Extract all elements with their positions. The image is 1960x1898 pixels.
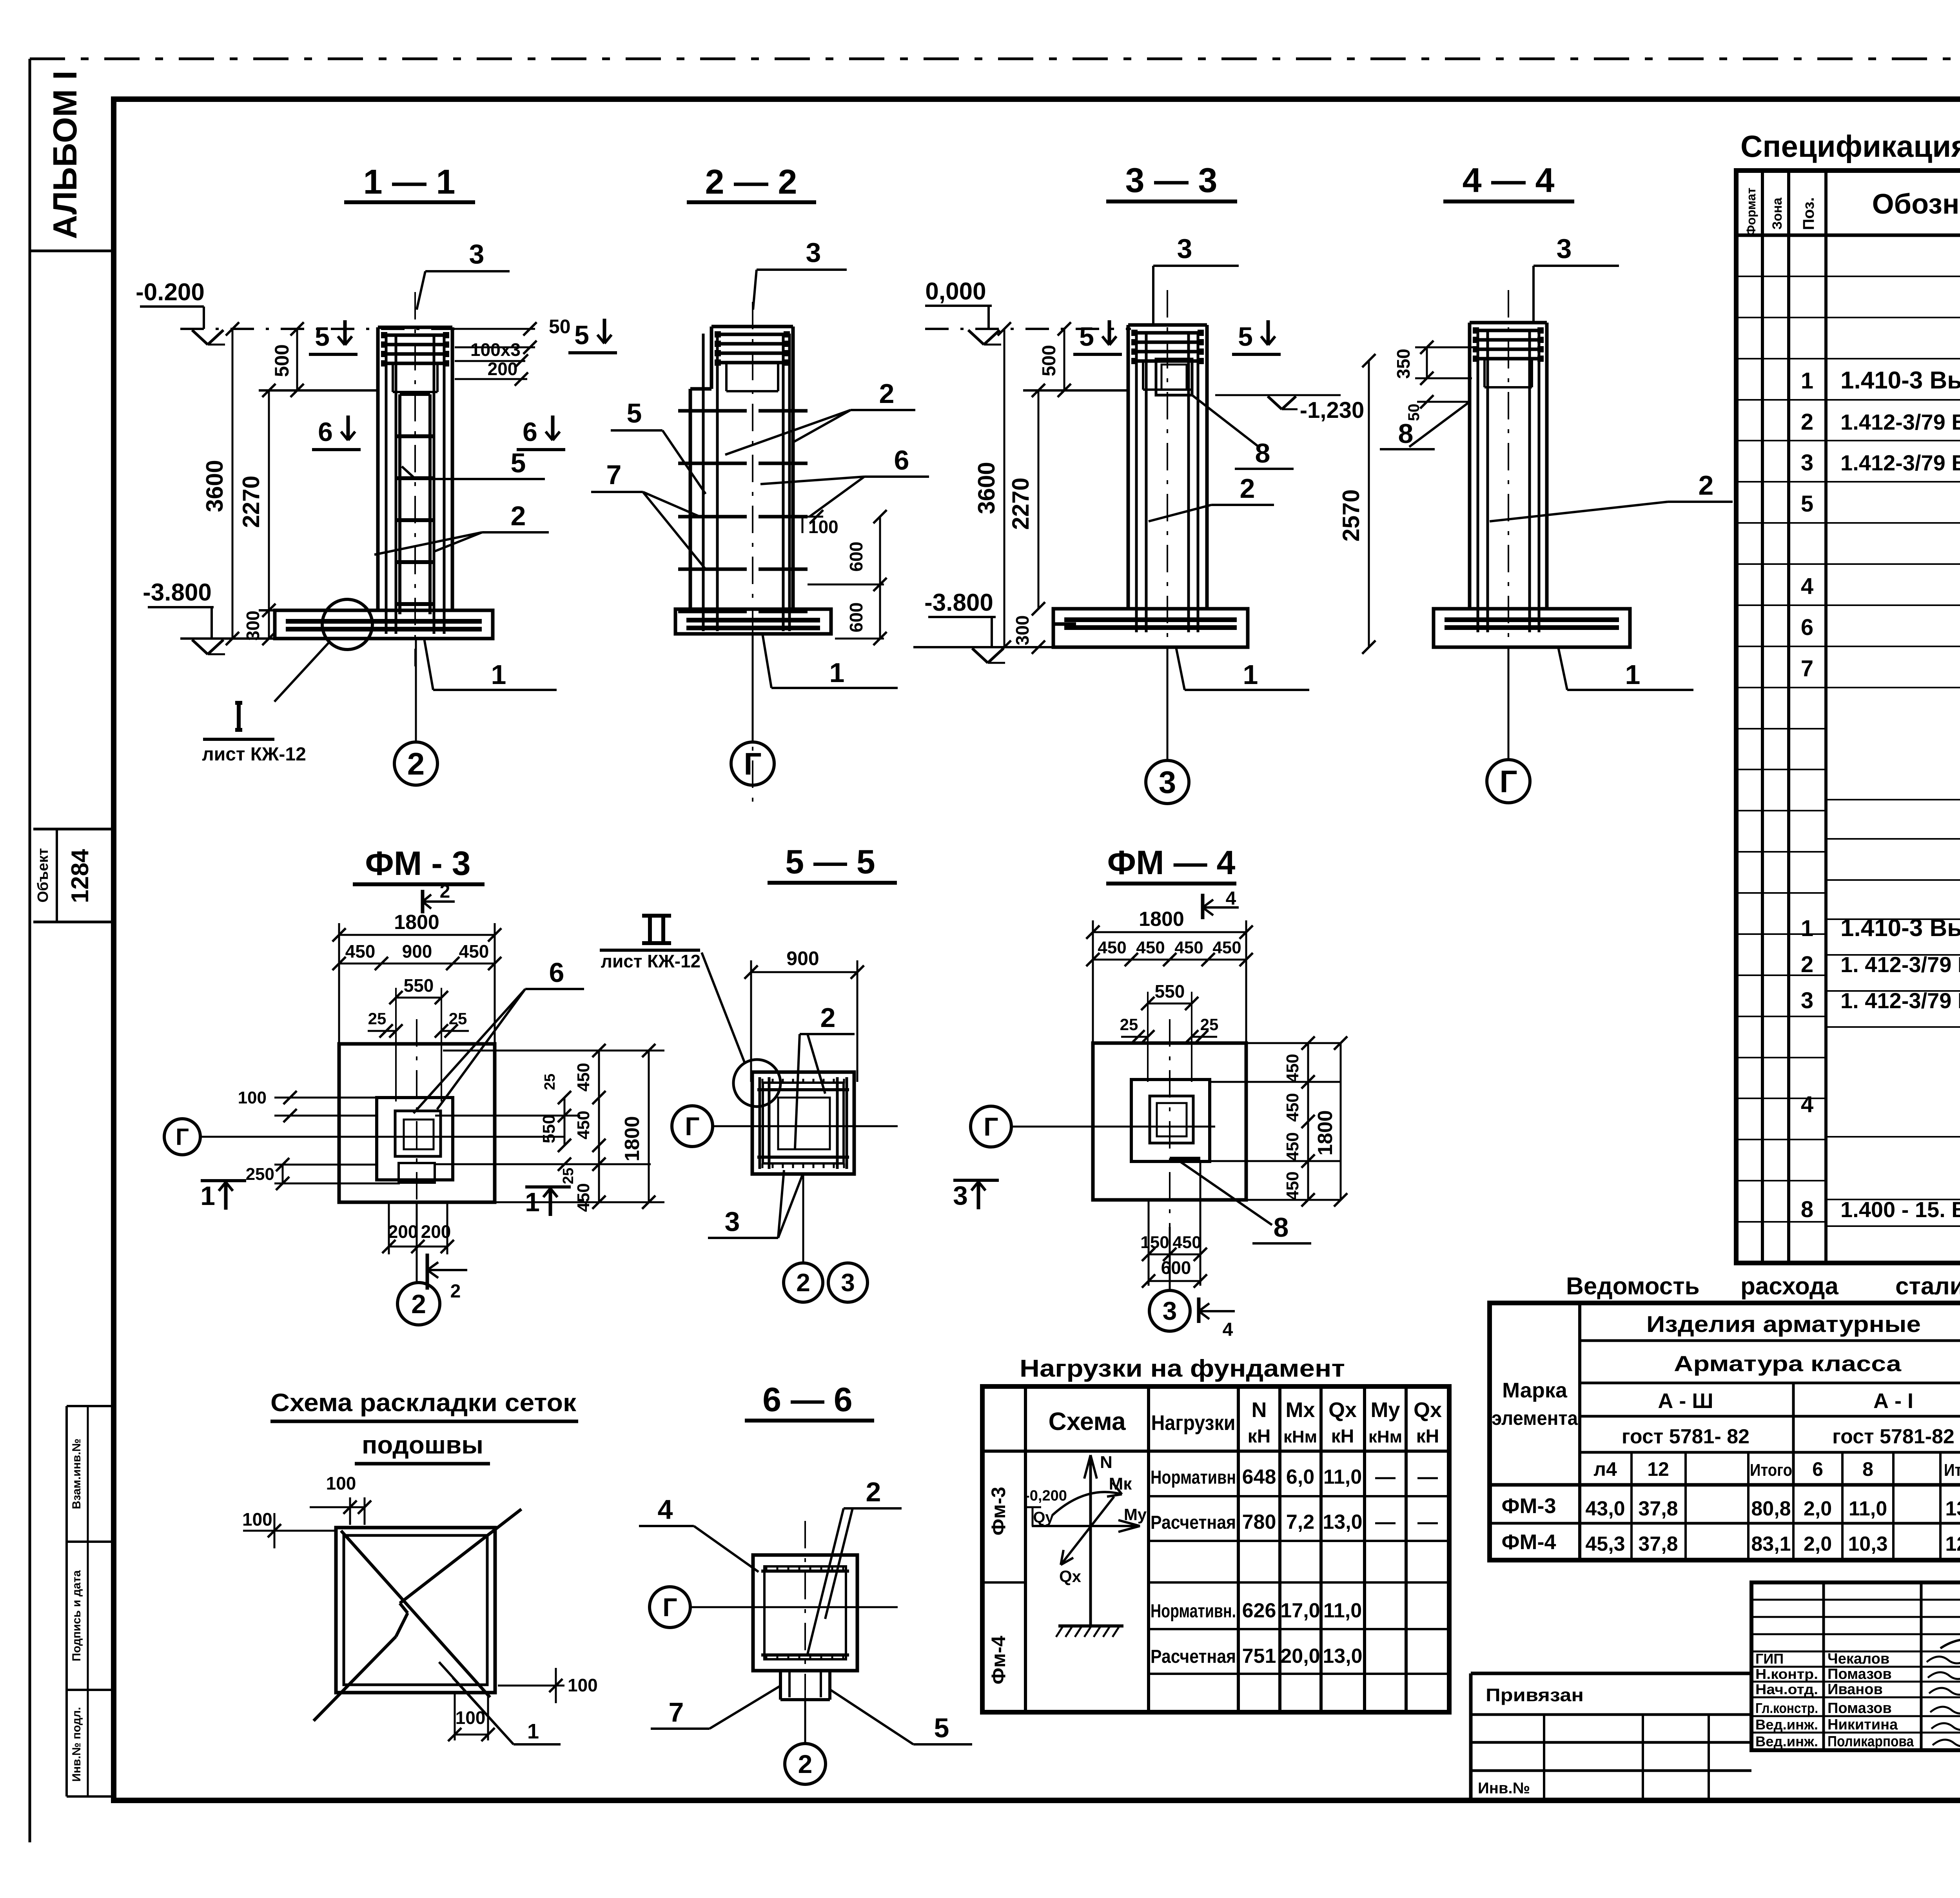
svg-text:Поликарпова: Поликарпова: [1828, 1733, 1914, 1750]
section 4-4 center line: [1508, 290, 1509, 666]
svg-text:11,0: 11,0: [1323, 1599, 1362, 1622]
svg-text:2: 2: [1801, 952, 1813, 977]
svg-text:Помазов: Помазов: [1828, 1666, 1892, 1682]
svg-text:N: N: [1252, 1398, 1267, 1422]
svg-text:300: 300: [1012, 615, 1033, 646]
svg-text:3: 3: [953, 1181, 968, 1210]
svg-text:250: 250: [246, 1165, 274, 1184]
signatures squiggles: [1927, 1655, 1960, 1664]
plan FM-4 embedded mark: [1170, 1157, 1200, 1162]
svg-text:100: 100: [326, 1473, 356, 1493]
svg-text:450: 450: [1283, 1093, 1302, 1121]
svg-text:626: 626: [1242, 1599, 1276, 1622]
section 5-5 axis circle G: [672, 1106, 713, 1147]
svg-text:3: 3: [806, 237, 821, 268]
svg-text:Нормативн.: Нормативн.: [1151, 1601, 1236, 1622]
svg-text:6: 6: [1812, 1458, 1823, 1480]
svg-text:Изделия арматурные: Изделия арматурные: [1646, 1312, 1921, 1337]
svg-text:450: 450: [459, 941, 489, 962]
svg-text:450: 450: [1172, 1233, 1201, 1252]
svg-text:Гл.констр.: Гл.констр.: [1755, 1700, 1818, 1716]
svg-text:кН: кН: [1248, 1426, 1271, 1447]
svg-text:Привязан: Привязан: [1486, 1685, 1584, 1705]
svg-text:2: 2: [407, 746, 425, 781]
svg-text:1: 1: [525, 1187, 540, 1217]
outer sheet border: [29, 59, 31, 1842]
svg-text:АЛЬБОМ I: АЛЬБОМ I: [47, 71, 84, 239]
svg-text:500: 500: [1039, 345, 1060, 376]
svg-text:751: 751: [1242, 1645, 1276, 1668]
svg-text:1284: 1284: [67, 849, 94, 903]
svg-text:кНм: кНм: [1283, 1427, 1317, 1446]
section 5-5 rebar bars: [759, 1077, 761, 1169]
section 6-6 square outline: [753, 1555, 857, 1671]
svg-text:Объект: Объект: [35, 848, 51, 903]
svg-text:450: 450: [574, 1110, 593, 1139]
svg-text:Итого: Итого: [1944, 1461, 1960, 1480]
mesh layout dim 100 right: [498, 1685, 564, 1687]
svg-text:450: 450: [1098, 938, 1126, 957]
plan FM-3 footing square: [339, 1044, 495, 1202]
svg-text:1 — 1: 1 — 1: [363, 162, 456, 201]
svg-text:ГИП: ГИП: [1755, 1651, 1784, 1667]
svg-text:5: 5: [1238, 322, 1253, 352]
section 6-6 bottom boss: [779, 1671, 782, 1700]
svg-text:6: 6: [318, 417, 333, 447]
plan FM-4 footing square: [1093, 1043, 1246, 1200]
svg-text:-3.800: -3.800: [143, 579, 212, 606]
svg-text:2570: 2570: [1338, 489, 1364, 541]
plan FM-4 cut mark 4 bottom: [1197, 1297, 1201, 1323]
svg-text:7: 7: [669, 1697, 684, 1727]
svg-text:Г: Г: [662, 1593, 677, 1622]
section 3-3 bottom axis circle 3: [1167, 647, 1169, 760]
svg-text:2: 2: [411, 1289, 426, 1319]
plan FM-4 bottom dims 150/450/600: [1148, 1201, 1150, 1286]
svg-text:600: 600: [1161, 1257, 1191, 1278]
signature grid: [1751, 1582, 1960, 1750]
svg-text:Нагрузки: Нагрузки: [1151, 1411, 1236, 1435]
svg-text:-0,200: -0,200: [1025, 1488, 1067, 1504]
svg-text:N: N: [1100, 1453, 1112, 1472]
section 3-3 center line: [1167, 290, 1168, 666]
spec table header bottom: [1736, 234, 1960, 237]
section 5-5 tick dots top/bottom: [762, 1079, 764, 1083]
svg-text:2: 2: [1240, 473, 1255, 504]
svg-text:Расчетная: Расчетная: [1151, 1512, 1236, 1533]
svg-text:12: 12: [1647, 1458, 1669, 1480]
mesh layout dim 100 top: [349, 1497, 351, 1525]
svg-text:6 — 6: 6 — 6: [762, 1381, 852, 1419]
svg-text:37,8: 37,8: [1638, 1497, 1678, 1520]
svg-text:3: 3: [1159, 765, 1176, 800]
svg-text:25: 25: [542, 1074, 558, 1090]
plan FM-4 cut mark 3 left: [953, 1179, 999, 1182]
plan FM-3 centerline vertical: [416, 1019, 417, 1239]
svg-text:600: 600: [846, 602, 866, 633]
svg-text:ФМ — 4: ФМ — 4: [1107, 844, 1236, 882]
svg-text:2270: 2270: [238, 475, 264, 528]
plan FM-4 right dim chains: [1307, 1043, 1309, 1200]
svg-text:0,000: 0,000: [925, 278, 986, 305]
svg-text:Обозначение: Обозначение: [1872, 189, 1960, 220]
svg-text:5: 5: [934, 1713, 949, 1743]
svg-text:Взам.инв.№: Взам.инв.№: [70, 1439, 83, 1509]
svg-text:1: 1: [1625, 659, 1641, 690]
svg-text:900: 900: [786, 947, 819, 969]
svg-text:ФМ - 3: ФМ - 3: [365, 845, 470, 882]
svg-text:100: 100: [808, 517, 838, 537]
svg-text:4: 4: [1226, 888, 1236, 909]
svg-text:450: 450: [574, 1183, 593, 1212]
svg-text:450: 450: [1212, 938, 1241, 957]
svg-text:гост 5781- 82: гост 5781- 82: [1622, 1425, 1749, 1448]
section 5-5 top dim 900: [751, 971, 857, 973]
section 1-1 dims left: [180, 637, 279, 640]
svg-text:50: 50: [549, 316, 571, 338]
plan FM-3 top dims: [339, 934, 495, 936]
svg-text:3: 3: [1557, 233, 1572, 264]
plan FM-3 cut mark 2 bottom: [426, 1254, 429, 1290]
svg-text:5: 5: [1801, 491, 1813, 517]
plan FM-3 inner squares: [395, 1111, 441, 1156]
svg-text:2,0: 2,0: [1804, 1533, 1832, 1555]
svg-text:20,0: 20,0: [1280, 1645, 1320, 1668]
svg-text:гост 5781-82: гост 5781-82: [1832, 1425, 1955, 1448]
svg-text:2: 2: [866, 1477, 881, 1507]
svg-text:5: 5: [1079, 322, 1094, 352]
svg-text:4: 4: [1223, 1319, 1233, 1340]
svg-text:1: 1: [829, 657, 845, 688]
svg-text:А - I: А - I: [1873, 1389, 1913, 1413]
svg-text:Qy: Qy: [1033, 1509, 1054, 1526]
svg-text:600: 600: [846, 542, 866, 572]
svg-text:13,0: 13,0: [1945, 1497, 1960, 1520]
svg-text:100: 100: [238, 1088, 267, 1107]
svg-text:2: 2: [1699, 470, 1714, 501]
svg-text:—: —: [1375, 1511, 1396, 1533]
plan FM-4 anchor square: [1131, 1080, 1210, 1161]
plan FM-3 axis circle G: [164, 1119, 200, 1155]
svg-text:100: 100: [242, 1509, 272, 1530]
svg-text:5 — 5: 5 — 5: [785, 843, 875, 881]
plan FM-3 column square: [377, 1098, 453, 1180]
section 1-1 footing: [275, 610, 493, 639]
svg-text:1: 1: [200, 1181, 215, 1211]
section 4-4 vertical rebars: [1477, 330, 1479, 632]
svg-text:25: 25: [560, 1168, 577, 1184]
section 4-4 head rebar: [1474, 329, 1542, 332]
section 3-3 vertical rebars: [1135, 332, 1138, 632]
svg-text:450: 450: [1283, 1054, 1302, 1082]
section 6-6 bottom axis circle 2: [804, 1700, 806, 1743]
plan FM-3 bottom axis circle 2: [416, 1202, 418, 1283]
svg-text:13,0: 13,0: [1323, 1511, 1362, 1533]
steel table frame: [1490, 1303, 1960, 1560]
svg-text:Схема раскладки сеток: Схема раскладки сеток: [270, 1388, 577, 1417]
svg-text:300: 300: [243, 611, 263, 641]
svg-text:6,0: 6,0: [1286, 1466, 1314, 1488]
svg-text:450: 450: [1174, 938, 1203, 957]
svg-text:450: 450: [574, 1063, 593, 1091]
svg-text:450: 450: [1283, 1171, 1302, 1200]
svg-text:6: 6: [894, 445, 909, 475]
section 3-3 label 8 leader: [1192, 395, 1258, 446]
section 3-3 dims left: [913, 646, 1058, 648]
svg-text:—: —: [1417, 1466, 1438, 1488]
svg-text:10,3: 10,3: [1848, 1533, 1887, 1555]
loads schema sketch: [1089, 1455, 1092, 1626]
svg-text:900: 900: [402, 941, 432, 962]
svg-text:2: 2: [796, 1268, 810, 1297]
svg-text:1800: 1800: [1139, 908, 1184, 931]
svg-text:550: 550: [539, 1114, 559, 1143]
section 3-3 level -1.230: [1215, 394, 1341, 396]
svg-text:Н.контр.: Н.контр.: [1755, 1666, 1818, 1682]
svg-text:СпецификацияфундаментовФм3иФм4: СпецификацияфундаментовФм3иФм4: [1740, 129, 1960, 163]
plan FM-3 right dim chains: [564, 1098, 566, 1145]
plan FM-3 bottom step: [399, 1163, 435, 1183]
section 2-2 head rebar: [716, 333, 788, 336]
svg-text:Помазов: Помазов: [1828, 1700, 1892, 1717]
svg-text:Зона: Зона: [1770, 197, 1785, 230]
svg-text:2: 2: [879, 378, 895, 409]
svg-text:-0.200: -0.200: [136, 279, 205, 306]
svg-text:8: 8: [1862, 1458, 1873, 1480]
section 3-3 label 1 leader: [1176, 647, 1185, 690]
svg-text:My: My: [1370, 1398, 1400, 1422]
section 1-1 bottom axis circle 2: [415, 639, 417, 742]
section 4-4 column outline: [1468, 323, 1472, 609]
svg-text:Qx: Qx: [1328, 1398, 1357, 1422]
section 2-2 vertical rebars: [702, 334, 705, 631]
svg-text:А - Ш: А - Ш: [1658, 1389, 1713, 1413]
section 1-1 detail circle I: [322, 599, 372, 650]
mesh layout leaders to 1: [439, 1662, 514, 1744]
svg-text:5: 5: [315, 322, 330, 352]
svg-text:кН: кН: [1331, 1426, 1354, 1447]
svg-text:Формат: Формат: [1744, 188, 1758, 236]
svg-text:ФМ-4: ФМ-4: [1501, 1530, 1556, 1554]
svg-text:1.412-3/79 Вып. 3: 1.412-3/79 Вып. 3: [1840, 450, 1960, 475]
section 1-1 center line: [414, 292, 416, 666]
svg-text:450: 450: [1136, 938, 1165, 957]
section 3-3 column outline: [1127, 325, 1130, 609]
svg-text:2 — 2: 2 — 2: [705, 162, 797, 201]
svg-text:450: 450: [345, 941, 376, 962]
svg-text:4 — 4: 4 — 4: [1463, 161, 1555, 200]
svg-text:Mx: Mx: [1285, 1398, 1315, 1422]
mesh layout dim 100 bottom: [454, 1693, 456, 1740]
svg-text:Арматура класса: Арматура класса: [1674, 1351, 1902, 1376]
svg-text:3: 3: [841, 1268, 855, 1297]
svg-text:Г: Г: [176, 1124, 189, 1150]
svg-text:лист КЖ-12: лист КЖ-12: [202, 744, 306, 765]
svg-text:5: 5: [511, 448, 526, 478]
left margin: ALBOM I box: [30, 250, 114, 252]
svg-text:7: 7: [606, 459, 622, 490]
section 2-2 stirrups: [678, 409, 747, 413]
svg-text:кН: кН: [1416, 1426, 1439, 1447]
svg-text:3: 3: [1801, 988, 1813, 1013]
svg-text:6: 6: [1801, 615, 1813, 640]
mesh layout dim 100 left: [243, 1530, 337, 1532]
section 4-4 bottom axis circle G: [1508, 647, 1510, 758]
svg-text:1.400 - 15. В. 1: 1.400 - 15. В. 1: [1840, 1197, 1960, 1222]
svg-text:Подпись и дата: Подпись и дата: [70, 1570, 83, 1661]
svg-text:Г: Г: [1499, 764, 1517, 799]
svg-text:25: 25: [1200, 1015, 1219, 1034]
loads table column lines: [1024, 1386, 1027, 1712]
svg-text:Марка: Марка: [1502, 1379, 1568, 1402]
section 6-6 rebar lines: [761, 1570, 849, 1573]
svg-text:83,1: 83,1: [1751, 1533, 1791, 1555]
plan FM-4 centerline vertical: [1169, 1019, 1171, 1227]
svg-text:500: 500: [271, 344, 293, 377]
svg-text:17,0: 17,0: [1280, 1599, 1320, 1622]
svg-text:Qx: Qx: [1414, 1398, 1442, 1422]
svg-text:1: 1: [1801, 368, 1813, 394]
plan FM-4 top dims: [1093, 931, 1246, 933]
svg-text:1. 412-3/79 Вып.3: 1. 412-3/79 Вып.3: [1840, 952, 1960, 977]
section 3-3 footing: [1053, 609, 1248, 647]
svg-text:Поз.: Поз.: [1800, 197, 1817, 230]
svg-text:Расчетная: Расчетная: [1151, 1646, 1236, 1667]
svg-text:13,0: 13,0: [1323, 1645, 1362, 1668]
section 6-6 centerline: [804, 1521, 806, 1740]
section 5-5 square outline: [752, 1072, 854, 1174]
svg-text:11,0: 11,0: [1849, 1497, 1887, 1520]
svg-text:Г: Г: [744, 746, 761, 781]
svg-text:12,3: 12,3: [1945, 1533, 1960, 1555]
plan FM-3 left dims 100: [274, 1097, 397, 1099]
svg-text:80,8: 80,8: [1751, 1497, 1791, 1520]
svg-text:37,8: 37,8: [1638, 1533, 1678, 1555]
svg-text:—: —: [1417, 1511, 1438, 1533]
svg-text:л4: л4: [1593, 1458, 1617, 1480]
mesh layout second diagonal: [341, 1531, 490, 1697]
svg-text:200: 200: [421, 1221, 451, 1242]
svg-text:200: 200: [488, 359, 518, 379]
svg-text:1: 1: [1801, 916, 1813, 941]
svg-text:Г: Г: [984, 1112, 998, 1141]
section 1-1 label 1 leader: [424, 639, 433, 690]
section 5-5 detail circle II: [733, 1060, 780, 1107]
plan FM-3 cut mark 1 left up: [201, 1179, 246, 1182]
svg-text:6: 6: [549, 957, 564, 988]
svg-text:7: 7: [1801, 656, 1813, 681]
svg-text:Фм-4: Фм-4: [987, 1636, 1009, 1684]
loads table frame: [982, 1386, 1449, 1712]
plan FM-4 axis circle G: [971, 1106, 1011, 1147]
svg-text:Вед.инж.: Вед.инж.: [1755, 1733, 1818, 1749]
svg-text:лист КЖ-12: лист КЖ-12: [601, 951, 701, 971]
svg-text:43,0: 43,0: [1585, 1497, 1625, 1520]
svg-text:2: 2: [798, 1749, 813, 1778]
svg-text:-1,230: -1,230: [1300, 397, 1364, 423]
svg-text:Вед.инж.: Вед.инж.: [1755, 1717, 1818, 1733]
section 4-4 label 8 leader: [1409, 402, 1470, 447]
svg-text:11,0: 11,0: [1323, 1466, 1362, 1488]
svg-text:1: 1: [491, 659, 506, 690]
mesh layout diagonal with break: [314, 1637, 396, 1721]
svg-text:2: 2: [1801, 409, 1813, 435]
svg-text:25: 25: [368, 1009, 387, 1028]
svg-text:3600: 3600: [201, 460, 228, 512]
svg-text:3 — 3: 3 — 3: [1125, 161, 1218, 200]
section 1-1 column outline: [376, 327, 380, 610]
section 2-2 label 1 leader: [762, 634, 771, 688]
svg-text:1800: 1800: [1314, 1110, 1337, 1156]
svg-text:подошвы: подошвы: [362, 1431, 483, 1459]
svg-text:350: 350: [1393, 349, 1414, 379]
section 1-1 dims right 50/100x3/200: [455, 328, 535, 330]
section 5-5 bottom circles 2 3: [802, 1174, 804, 1263]
mesh layout square: [336, 1528, 495, 1693]
svg-text:100: 100: [456, 1707, 486, 1728]
section 2-2 center line: [752, 302, 753, 807]
svg-text:кНм: кНм: [1368, 1427, 1402, 1446]
svg-text:5: 5: [627, 398, 642, 428]
section 2-2 footing: [675, 609, 831, 634]
left margin: Object 1284 box: [33, 828, 114, 831]
plan FM-3 cut mark 2 top: [421, 890, 425, 913]
plan FM-4 label 8 leader: [1180, 1161, 1272, 1225]
svg-text:8: 8: [1274, 1212, 1289, 1243]
svg-text:450: 450: [1283, 1132, 1302, 1161]
section 3-3 head rebar: [1133, 331, 1202, 335]
svg-text:3: 3: [1163, 1296, 1177, 1325]
svg-text:1.410-3 Вып.1: 1.410-3 Вып.1: [1840, 915, 1960, 942]
svg-text:Qx: Qx: [1059, 1567, 1082, 1586]
svg-text:Г: Г: [685, 1112, 699, 1141]
plan FM-4 cut mark 4 top: [1201, 894, 1205, 919]
svg-text:200: 200: [388, 1221, 418, 1242]
svg-text:Нач.отд.: Нач.отд.: [1755, 1681, 1818, 1697]
svg-text:Схема: Схема: [1048, 1407, 1125, 1435]
loads table row lines: [1149, 1495, 1449, 1497]
svg-text:Му: Му: [1124, 1505, 1147, 1524]
plan FM-3 right ext lines: [443, 1050, 664, 1052]
svg-text:-3.800: -3.800: [924, 589, 993, 616]
plan FM-3 dim 250 bottom left: [274, 1164, 378, 1166]
section 1-1 rebar ladder C1: [398, 394, 401, 614]
svg-text:3600: 3600: [973, 462, 1000, 514]
steel table sub column lines: [1630, 1452, 1633, 1560]
section 6-6 axis circle G: [650, 1587, 690, 1628]
svg-text:3: 3: [1177, 233, 1192, 264]
steel table structure: [1578, 1303, 1581, 1560]
svg-text:150: 150: [1140, 1233, 1169, 1252]
svg-text:Инв.№: Инв.№: [1478, 1780, 1530, 1797]
svg-text:2270: 2270: [1007, 477, 1034, 530]
loads table header row line: [982, 1450, 1449, 1453]
svg-text:Никитина: Никитина: [1828, 1717, 1898, 1733]
svg-text:1800: 1800: [621, 1116, 644, 1161]
svg-text:780: 780: [1242, 1511, 1276, 1533]
svg-text:8: 8: [1255, 438, 1270, 468]
svg-text:1800: 1800: [394, 911, 439, 934]
svg-text:7,2: 7,2: [1286, 1511, 1314, 1533]
plan FM-4 bottom axis circle 3: [1169, 1286, 1171, 1290]
svg-text:1.410-3 Вып.1: 1.410-3 Вып.1: [1840, 367, 1960, 394]
svg-text:Нормативн: Нормативн: [1151, 1467, 1236, 1488]
svg-text:100x3: 100x3: [470, 339, 521, 360]
section 2-2 column outline: [711, 325, 793, 328]
svg-text:1.412-3/79 Вып.3: 1.412-3/79 Вып.3: [1840, 410, 1960, 434]
section 1-1 vertical rebars: [385, 334, 388, 634]
svg-text:8: 8: [1398, 418, 1414, 449]
